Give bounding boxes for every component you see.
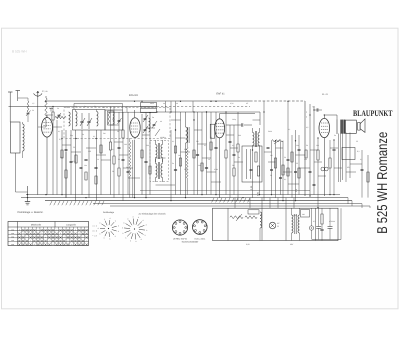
label tube V2 ECH81 <box>129 94 138 97</box>
label tube V3 EAF41 <box>216 92 225 95</box>
tube V1 cathode wire <box>46 137 48 195</box>
svg-text:50: 50 <box>210 136 212 139</box>
coil L5 with core <box>186 112 190 198</box>
mid cap Ca <box>196 155 199 156</box>
IF transformer IFT1 <box>156 140 163 162</box>
V2 top connect wire <box>126 107 128 113</box>
svg-text:6: 6 <box>109 237 110 240</box>
antenna terminal A <box>8 92 13 122</box>
mid resistor Re <box>210 142 212 150</box>
tube V4 anode wire <box>324 115 337 119</box>
trimmer location diagram 2 <box>122 216 147 243</box>
svg-text:25: 25 <box>112 118 114 121</box>
speaker cone <box>358 119 365 132</box>
af resistor Rh <box>291 152 300 178</box>
svg-text:1b: 1b <box>75 105 77 108</box>
svg-text:3: 3 <box>99 233 100 236</box>
plus A labels <box>306 106 315 119</box>
mains switch box <box>248 210 259 214</box>
svg-text:0: 0 <box>127 217 128 220</box>
svg-text:50: 50 <box>73 146 75 149</box>
cathode resistor R10 <box>317 138 319 208</box>
oscillator boxes <box>141 103 157 113</box>
svg-text:100: 100 <box>124 143 127 146</box>
bandfilter outer box top <box>74 104 123 111</box>
svg-text:1a: 1a <box>66 106 68 109</box>
svg-text:0,1: 0,1 <box>360 158 362 161</box>
svg-text:5k: 5k <box>103 106 105 109</box>
svg-text:3: 3 <box>130 239 131 242</box>
pilot lamp <box>269 222 276 229</box>
svg-text:460kHz: 460kHz <box>160 136 166 139</box>
IFT dashed shield <box>150 141 169 182</box>
svg-text:Langwelle: Langwelle <box>66 224 77 227</box>
tone cap Cg <box>333 140 336 195</box>
heater cap symbols <box>313 208 321 239</box>
top bus corner drop wire <box>304 101 306 196</box>
svg-text:0: 0 <box>122 232 123 235</box>
short connector wires <box>38 115 362 185</box>
svg-text:EL 41: EL 41 <box>322 93 328 96</box>
svg-text:100p: 100p <box>232 118 236 121</box>
svg-text:40: 40 <box>160 120 162 123</box>
caption trimmer diagram 2 <box>138 213 166 216</box>
power supply box <box>213 208 339 240</box>
output coupling wires <box>310 104 314 196</box>
svg-text:6: 6 <box>98 227 99 230</box>
component value labels <box>57 102 362 181</box>
bandfilter box 1 <box>73 110 106 131</box>
svg-text:AZ: AZ <box>246 102 248 105</box>
svg-text:50: 50 <box>306 144 308 147</box>
wires under bandfilter <box>62 130 101 201</box>
bottom chassis bus wire 3 <box>45 200 352 202</box>
frame antenna box <box>11 122 21 153</box>
osc resistor R7 <box>141 150 143 158</box>
tube V3 top cap wire <box>220 114 255 119</box>
svg-text:0,1: 0,1 <box>357 150 360 153</box>
svg-text:6,3: 6,3 <box>313 220 315 223</box>
svg-text:6: 6 <box>110 217 111 220</box>
audio stage box <box>242 146 262 182</box>
mid rail wire <box>108 111 157 113</box>
bandfilter box 2 <box>105 110 123 130</box>
svg-text:2b: 2b <box>94 105 96 108</box>
small resistor R4 <box>61 150 63 158</box>
svg-text:4a: 4a <box>163 102 165 105</box>
svg-text:0,1: 0,1 <box>288 128 290 131</box>
antenna terminal E <box>16 91 21 102</box>
svg-text:6: 6 <box>138 216 139 219</box>
filter choke <box>260 212 262 241</box>
svg-text:6: 6 <box>125 237 126 240</box>
mains entry box <box>301 210 310 218</box>
small resistor R5 <box>75 155 77 163</box>
svg-text:25: 25 <box>356 140 358 143</box>
svg-text:50k: 50k <box>238 134 241 137</box>
bottom chassis bus wire 5 <box>110 205 370 207</box>
tone network <box>329 140 331 195</box>
AVC dots <box>175 101 217 131</box>
right caps <box>361 170 370 182</box>
BLAUPUNKT logo <box>353 109 393 118</box>
tube socket diagram 2 <box>193 220 208 235</box>
svg-text:10n: 10n <box>304 158 307 161</box>
rotated value label 3 <box>295 188 298 192</box>
svg-text:20k: 20k <box>146 144 149 147</box>
tube V2 cathode wire <box>134 140 136 198</box>
IF transformer IFT2 <box>156 159 163 182</box>
tube V4 envelope <box>319 118 330 137</box>
mid resistor Rd <box>201 163 203 171</box>
svg-text:1k: 1k <box>97 158 99 161</box>
svg-text:0: 0 <box>136 240 137 243</box>
svg-text:Sockelschaltbilder: Sockelschaltbilder <box>182 241 199 244</box>
tube V1 envelope <box>42 118 53 138</box>
svg-text:0,1: 0,1 <box>172 140 174 143</box>
svg-text:EAF 41: EAF 41 <box>216 92 225 95</box>
tube V3 envelope <box>215 119 225 138</box>
svg-text:Drehkolage u. Skalenz.: Drehkolage u. Skalenz. <box>18 211 44 214</box>
cathode cap C10 <box>321 167 328 171</box>
mid vertical wires <box>171 112 216 201</box>
antenna symbol <box>34 91 42 97</box>
mixer resistor R8 <box>149 166 151 174</box>
svg-text:0,1: 0,1 <box>204 144 206 147</box>
osc cap C8 <box>144 162 147 163</box>
tube V4 grids <box>321 123 328 133</box>
svg-text:2a: 2a <box>84 105 86 108</box>
svg-text:EL41, AZ11: EL41, AZ11 <box>195 237 207 240</box>
svg-text:25: 25 <box>296 162 298 165</box>
bandfilter trimmer 2 <box>87 113 92 129</box>
svg-text:5n: 5n <box>126 166 128 169</box>
wire L2 top <box>45 96 47 127</box>
notes right of table <box>93 225 98 238</box>
svg-text:0,1: 0,1 <box>59 138 62 141</box>
svg-text:5k: 5k <box>270 174 272 177</box>
additional resistors <box>65 130 307 184</box>
svg-text:3a: 3a <box>152 116 154 119</box>
alignment table <box>8 222 89 247</box>
label tube V4 EL41 <box>322 93 328 96</box>
feedback box <box>342 148 355 160</box>
svg-text:27,1 B: 27,1 B <box>42 90 48 93</box>
svg-text:0: 0 <box>99 222 100 225</box>
tube V2 envelope <box>130 118 140 138</box>
tube V4 cathode wire <box>323 138 325 196</box>
svg-text:0: 0 <box>104 237 105 240</box>
socket labels line 2 <box>182 241 199 244</box>
grid cap C9 <box>314 108 322 111</box>
svg-text:3: 3 <box>146 224 147 227</box>
bus corner right 1 <box>348 198 370 208</box>
cap C6 <box>94 168 97 169</box>
svg-text:0,1: 0,1 <box>58 130 60 133</box>
junction dots <box>45 101 334 209</box>
osc padder trimmers <box>143 115 160 136</box>
svg-text:3: 3 <box>145 234 146 237</box>
tube V3 cathode wire <box>219 138 221 198</box>
bandfilter coil L3b <box>97 110 99 127</box>
antenna coupling coil L2 <box>45 98 47 120</box>
speaker magnet box <box>345 120 356 133</box>
caption Drehkolage <box>18 211 44 214</box>
svg-text:5n: 5n <box>238 156 240 159</box>
svg-text:UKW: UKW <box>150 102 154 105</box>
svg-text:ECH 81: ECH 81 <box>129 94 138 97</box>
svg-text:10n: 10n <box>198 164 201 167</box>
svg-text:500k: 500k <box>268 130 272 133</box>
rotated value label 1 <box>250 185 253 190</box>
svg-text:zur Einbaulage des Chassis: zur Einbaulage des Chassis <box>138 213 166 216</box>
svg-text:4b: 4b <box>176 102 178 105</box>
power feed wires <box>235 198 294 209</box>
svg-text:a: a <box>306 112 307 114</box>
svg-text:B 525 WH: B 525 WH <box>12 50 27 54</box>
svg-text:0: 0 <box>118 230 119 233</box>
bandfilter coil L3a <box>76 110 78 127</box>
coil L3 <box>69 112 71 126</box>
power right contents <box>293 208 333 240</box>
svg-text:1k: 1k <box>208 158 210 161</box>
additional vertical wires <box>57 107 238 201</box>
svg-text:2k: 2k <box>57 107 59 110</box>
bottom right bus <box>312 208 341 239</box>
rotated value label 2 <box>257 191 260 196</box>
svg-text:5n: 5n <box>172 162 174 165</box>
ground symbol main <box>25 186 30 205</box>
label cluster left <box>59 138 91 153</box>
osc coil assembly <box>108 111 122 125</box>
svg-text:BLAUPUNKT: BLAUPUNKT <box>353 109 393 118</box>
AF choke winding tall <box>186 143 188 195</box>
svg-text:0,1: 0,1 <box>284 178 286 181</box>
small resistor R6 <box>100 145 102 153</box>
svg-text:UCH81, EAF41: UCH81, EAF41 <box>173 237 188 240</box>
svg-text:50p: 50p <box>70 134 73 137</box>
svg-text:10n: 10n <box>84 164 87 167</box>
output transformer core bars <box>341 120 346 134</box>
svg-text:3: 3 <box>118 224 119 227</box>
trimmer location diagram 1 <box>98 217 119 240</box>
svg-text:50: 50 <box>284 156 286 159</box>
svg-text:5k: 5k <box>117 130 119 133</box>
tube socket diagram 1 <box>172 220 187 235</box>
tuning gang dashed frame <box>64 108 170 139</box>
svg-text:200: 200 <box>88 150 91 153</box>
wires top right of V3 <box>226 112 260 125</box>
af cap Cf <box>287 160 298 173</box>
right small texts <box>347 150 360 169</box>
svg-text:11: 11 <box>277 225 279 228</box>
audio box contents <box>247 149 260 179</box>
pot resistor Rf <box>274 158 276 168</box>
output transformer winding edge <box>336 119 338 134</box>
svg-text:0: 0 <box>146 229 147 232</box>
V3 right coupling cap <box>226 123 252 126</box>
svg-text:3: 3 <box>133 216 134 219</box>
svg-text:b: b <box>306 116 307 119</box>
below-box labels <box>246 243 294 246</box>
cap C5 <box>84 160 87 161</box>
mid cap Cb <box>205 168 208 169</box>
svg-text:300: 300 <box>184 168 187 171</box>
V3 grid box <box>210 124 215 138</box>
svg-text:0: 0 <box>115 220 116 223</box>
speaker wires <box>339 133 351 183</box>
antenna net drop wire <box>16 153 28 192</box>
svg-text:100: 100 <box>316 144 319 147</box>
svg-text:6: 6 <box>124 221 125 224</box>
tube V1 grids <box>44 123 51 133</box>
HT feed wires <box>264 101 288 135</box>
socket labels line 1 <box>173 237 206 240</box>
mid resistor Rc <box>193 150 195 158</box>
pot cap Ce <box>270 170 282 179</box>
top HT bus wire <box>47 100 306 102</box>
bandfilter trimmer 1 <box>80 113 85 129</box>
antenna down wire <box>37 97 39 195</box>
power inner dividers <box>228 208 316 240</box>
coupling resistor R3 <box>55 116 66 118</box>
tube V2 anode wire <box>134 110 136 117</box>
svg-text:6: 6 <box>141 238 142 241</box>
dashed AVC line <box>157 105 250 107</box>
pot resistor Rg <box>282 165 284 175</box>
svg-text:0: 0 <box>143 219 144 222</box>
chassis hatching left <box>50 201 104 205</box>
tube V2 grids <box>131 123 138 132</box>
wire top mid <box>157 111 226 113</box>
faint pencil note <box>12 50 27 54</box>
svg-text:2k: 2k <box>112 170 114 173</box>
svg-text:30: 30 <box>32 109 34 112</box>
mid resistor Ra <box>174 146 176 153</box>
rect label <box>277 222 280 228</box>
tube V1 anode wire <box>46 115 48 118</box>
chassis hatching <box>212 198 250 203</box>
voltage dropper resistor chain <box>230 214 257 221</box>
svg-text:0,1: 0,1 <box>93 135 95 138</box>
osc coil L4 <box>149 118 151 132</box>
svg-text:0,5: 0,5 <box>306 126 308 129</box>
svg-text:3b: 3b <box>144 118 146 121</box>
mid cap Cc <box>214 148 217 149</box>
electrolytic cans <box>309 208 313 239</box>
lower rail wire <box>140 190 310 192</box>
detector coil IFT3 <box>253 128 260 150</box>
mid resistor Rb <box>179 158 181 166</box>
bottom chassis bus wire 1 <box>26 194 340 196</box>
svg-text:3: 3 <box>104 218 105 221</box>
right vertical wires <box>362 150 368 198</box>
mains transformer <box>292 208 300 240</box>
svg-text:B 525 WH Romanze: B 525 WH Romanze <box>375 132 391 234</box>
label tube V1 27,1B <box>42 90 48 93</box>
model name rotated <box>375 132 391 234</box>
svg-text:0,5M: 0,5M <box>72 160 76 163</box>
af vertical wires <box>288 130 299 201</box>
osc network wires <box>142 113 150 198</box>
left resistor R1 <box>52 107 54 195</box>
secondary top bus wire <box>9 106 158 108</box>
svg-text:5n: 5n <box>82 133 84 136</box>
volume pot network <box>272 140 284 201</box>
svg-text:3: 3 <box>115 235 116 238</box>
tube V3 grids <box>216 124 224 134</box>
mid cap Cd <box>174 170 177 171</box>
caption trimmer diagram 1 <box>103 211 115 214</box>
svg-text:10n: 10n <box>296 144 299 147</box>
svg-text:300: 300 <box>60 156 63 159</box>
svg-text:3: 3 <box>122 227 123 230</box>
svg-text:Mittelwelle: Mittelwelle <box>31 224 42 227</box>
bottom chassis bus wire 4 <box>93 203 362 205</box>
frame antenna coil L1 <box>23 122 25 158</box>
oscillator winding tall <box>129 138 131 198</box>
svg-text:5n: 5n <box>334 134 336 137</box>
svg-text:0,5M: 0,5M <box>214 168 218 171</box>
bus drop wires mid <box>166 101 194 112</box>
antenna matching network <box>18 98 35 122</box>
detector wires <box>253 128 265 201</box>
svg-text:1,5: 1,5 <box>32 102 34 105</box>
additional capacitors <box>65 142 316 186</box>
ferrite antenna small symbol <box>49 108 52 112</box>
left trimmer C2 <box>57 113 61 118</box>
heater cap symbols 2 <box>328 208 336 239</box>
bottom chassis bus wire 2 <box>21 197 348 199</box>
svg-text:Drehkolage: Drehkolage <box>103 211 115 214</box>
